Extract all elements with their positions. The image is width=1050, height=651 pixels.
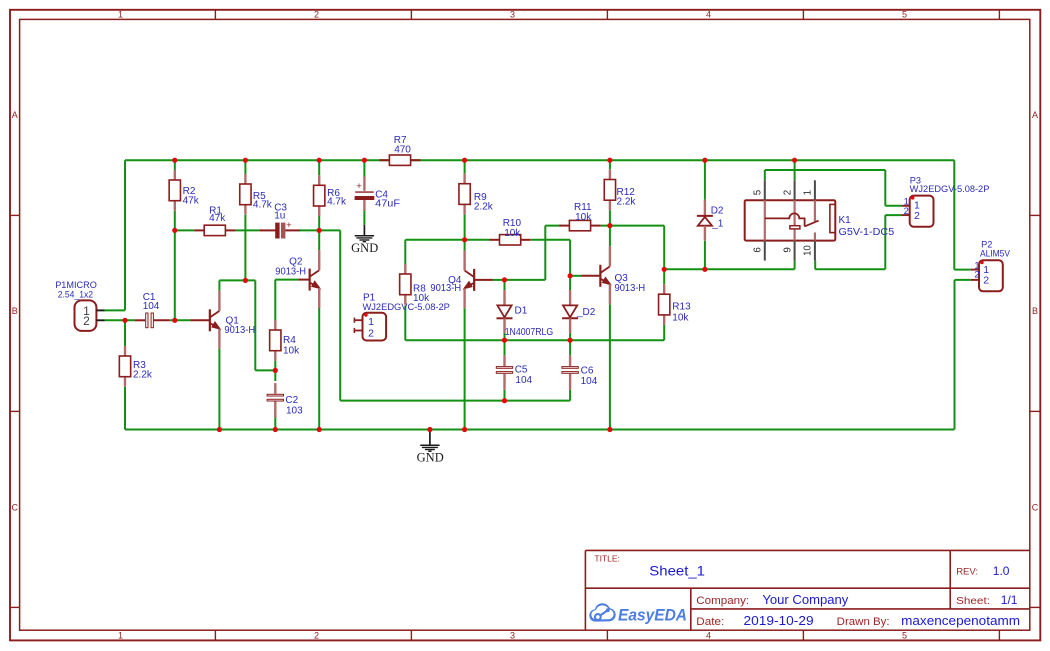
svg-text:5: 5 <box>902 9 907 19</box>
svg-text:B: B <box>12 306 18 316</box>
svg-text:47uF: 47uF <box>375 198 400 209</box>
svg-text:EasyEDA: EasyEDA <box>618 606 687 624</box>
svg-text:GND: GND <box>351 241 378 255</box>
svg-text:WJ2EDGVC-5.08-2P: WJ2EDGVC-5.08-2P <box>363 302 450 312</box>
svg-text:Sheet:: Sheet: <box>956 596 990 607</box>
svg-text:2: 2 <box>314 9 319 19</box>
svg-text:9013-H: 9013-H <box>275 266 306 277</box>
svg-text:2: 2 <box>983 275 989 287</box>
svg-text:10k: 10k <box>575 212 592 223</box>
svg-text:WJ2EDGV-5.08-2P: WJ2EDGV-5.08-2P <box>910 184 990 194</box>
svg-text:1.0: 1.0 <box>993 564 1010 578</box>
svg-text:10k: 10k <box>283 345 300 356</box>
svg-text:2.54_1x2: 2.54_1x2 <box>58 289 93 300</box>
svg-text:10: 10 <box>802 245 813 256</box>
svg-text:GND: GND <box>417 450 444 464</box>
svg-text:5: 5 <box>752 189 763 195</box>
svg-text:2.2k: 2.2k <box>133 370 153 381</box>
svg-text:10k: 10k <box>504 228 521 239</box>
svg-text:A: A <box>1032 110 1038 120</box>
svg-text:2: 2 <box>914 210 920 222</box>
svg-text:9: 9 <box>783 247 794 252</box>
svg-text:2: 2 <box>83 314 90 328</box>
svg-text:+: + <box>286 220 292 231</box>
svg-text:10k: 10k <box>672 312 689 323</box>
svg-text:1/1: 1/1 <box>1001 593 1018 607</box>
svg-text:4: 4 <box>706 631 711 641</box>
svg-text:103: 103 <box>286 405 303 416</box>
svg-text:Drawn By:: Drawn By: <box>837 616 890 628</box>
svg-text:TITLE:: TITLE: <box>594 554 620 564</box>
svg-text:2: 2 <box>783 190 794 195</box>
svg-text:1N4007RLG: 1N4007RLG <box>505 327 554 338</box>
svg-text:_1: _1 <box>711 219 724 230</box>
svg-text:REV:: REV: <box>956 567 978 578</box>
svg-text:9013-H: 9013-H <box>615 283 646 294</box>
svg-text:2.2k: 2.2k <box>474 201 494 212</box>
svg-text:_D2: _D2 <box>576 307 596 318</box>
svg-text:1: 1 <box>118 9 123 19</box>
svg-text:ALIM5V: ALIM5V <box>980 249 1011 259</box>
svg-text:2.2k: 2.2k <box>617 197 637 208</box>
svg-text:1: 1 <box>118 631 123 641</box>
svg-text:4.7k: 4.7k <box>253 199 273 210</box>
svg-text:1: 1 <box>368 316 374 328</box>
svg-text:1: 1 <box>802 190 813 195</box>
svg-text:C: C <box>1032 502 1039 512</box>
svg-text:1u: 1u <box>274 211 285 222</box>
svg-text:5: 5 <box>902 631 907 641</box>
svg-text:3: 3 <box>510 631 515 641</box>
svg-text:B: B <box>1032 306 1038 316</box>
svg-text:9013-H: 9013-H <box>430 283 461 294</box>
svg-text:Date:: Date: <box>696 616 724 628</box>
svg-text:2: 2 <box>974 270 979 281</box>
svg-text:R4: R4 <box>283 335 296 346</box>
svg-text:K1: K1 <box>839 215 852 226</box>
svg-text:9013-H: 9013-H <box>224 325 255 336</box>
svg-text:G5V-1-DC5: G5V-1-DC5 <box>839 227 895 238</box>
svg-text:2: 2 <box>368 328 374 340</box>
svg-text:47k: 47k <box>183 195 200 206</box>
svg-text:104: 104 <box>143 301 160 312</box>
svg-text:2: 2 <box>314 631 319 641</box>
svg-text:47k: 47k <box>209 213 226 224</box>
svg-text:Your Company: Your Company <box>762 593 849 607</box>
svg-text:2019-10-29: 2019-10-29 <box>744 614 814 628</box>
svg-text:Sheet_1: Sheet_1 <box>649 563 705 579</box>
svg-text:2: 2 <box>904 206 909 217</box>
svg-text:4: 4 <box>706 9 711 19</box>
svg-text:+: + <box>356 181 362 192</box>
svg-text:3: 3 <box>510 9 515 19</box>
svg-text:6: 6 <box>752 247 763 253</box>
svg-text:Company:: Company: <box>696 595 749 607</box>
svg-text:C: C <box>11 502 18 512</box>
svg-text:R13: R13 <box>672 302 691 313</box>
svg-text:4.7k: 4.7k <box>327 197 347 208</box>
svg-text:104: 104 <box>515 375 532 386</box>
svg-text:D2: D2 <box>711 206 724 217</box>
svg-text:A: A <box>12 110 18 120</box>
svg-text:D1: D1 <box>515 305 528 316</box>
svg-text:maxencepenotamm: maxencepenotamm <box>901 614 1020 628</box>
svg-text:470: 470 <box>394 145 411 156</box>
svg-text:104: 104 <box>581 376 598 387</box>
